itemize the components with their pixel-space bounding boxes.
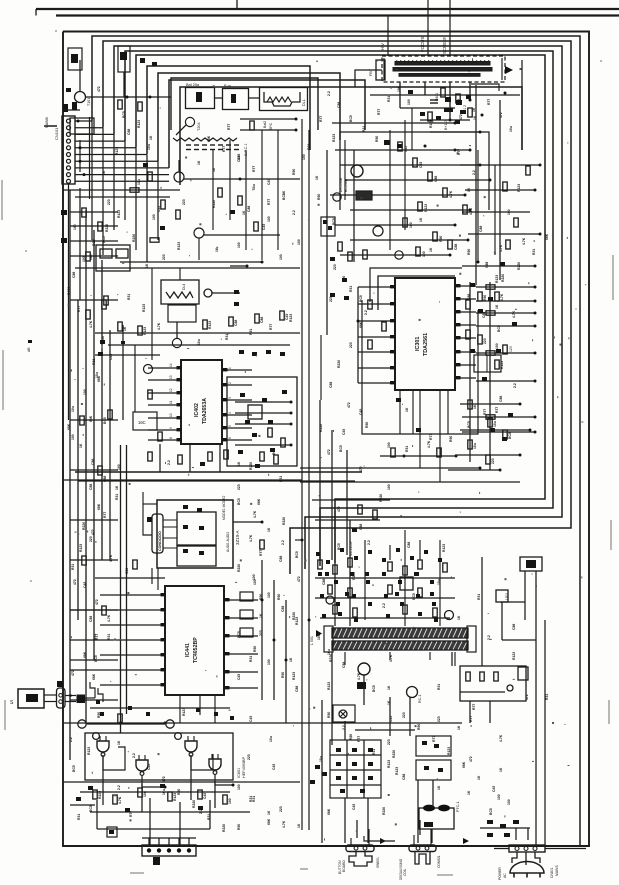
box mid-right region — [370, 268, 462, 302]
resistor Rto — [250, 121, 254, 130]
svg-text:2.2: 2.2 — [69, 737, 73, 742]
svg-text:100: 100 — [495, 343, 499, 349]
resistor RE13 — [403, 605, 407, 614]
svg-text:223: 223 — [107, 199, 111, 205]
blob fb3 — [436, 116, 441, 120]
wire drop 402b — [189, 444, 191, 472]
resistor RA2 — [203, 320, 207, 329]
svg-text:10u: 10u — [269, 736, 273, 742]
svg-text:100: 100 — [302, 154, 306, 160]
blob r301 0 — [500, 262, 505, 266]
svg-text:68K: 68K — [83, 651, 87, 658]
svg-text:BC5: BC5 — [72, 765, 76, 772]
wire cross a — [340, 711, 346, 717]
wire CN601 lead 5 — [188, 838, 190, 845]
svg-text:100: 100 — [73, 224, 77, 230]
wire IC301 left pin 6 — [358, 367, 395, 369]
svg-text:R77: R77 — [483, 409, 487, 415]
svg-text:R31: R31 — [249, 656, 253, 662]
svg-text:C45: C45 — [157, 206, 161, 212]
svg-text:R77: R77 — [472, 704, 476, 710]
svg-text:BC5: BC5 — [272, 448, 276, 455]
blob bm4 — [415, 572, 419, 576]
PTC box — [419, 808, 454, 829]
frame main border — [63, 32, 589, 847]
transistor T503 — [407, 687, 418, 698]
resistor RR3 — [495, 360, 499, 369]
svg-text:1K: 1K — [197, 160, 201, 165]
svg-text:R123: R123 — [289, 314, 293, 322]
svg-text:R220: R220 — [101, 336, 105, 344]
svg-text:BC5: BC5 — [349, 115, 353, 122]
svg-text:R50: R50 — [237, 824, 241, 830]
svg-text:R123: R123 — [67, 287, 71, 295]
svg-text:1K: 1K — [267, 527, 271, 532]
svg-text:2.2: 2.2 — [472, 170, 476, 175]
pin IC441 l2 tick — [161, 608, 166, 611]
wire sw801 up — [356, 820, 358, 838]
resistor RE2 — [348, 558, 352, 567]
box region IC402 — [75, 267, 300, 269]
svg-text:R50: R50 — [375, 136, 379, 142]
svg-text:R123: R123 — [142, 304, 146, 312]
wire LED b — [44, 701, 56, 703]
resistor RT6 — [433, 232, 437, 241]
blob bl — [109, 830, 114, 834]
svg-text:R220: R220 — [501, 274, 505, 282]
wire gates down2 — [141, 782, 143, 812]
svg-text:100: 100 — [237, 242, 241, 248]
node fbt d2 — [479, 131, 482, 134]
wire bm v4b — [417, 780, 419, 843]
svg-text:10u: 10u — [95, 372, 99, 378]
svg-text:16C: 16C — [138, 420, 146, 425]
transistor T431 — [333, 193, 341, 201]
svg-text:R220: R220 — [237, 564, 241, 572]
svg-text:R77: R77 — [469, 716, 473, 722]
wire IC402 right pin 6 — [222, 439, 252, 441]
transistor T501 — [326, 596, 334, 604]
wire gates down4 — [214, 781, 216, 808]
resistor RE6 — [443, 563, 447, 572]
svg-text:TDA2561: TDA2561 — [423, 333, 429, 356]
pin IC441 r1 tick — [225, 598, 230, 601]
CN601 stem — [153, 857, 160, 865]
svg-text:223: 223 — [89, 536, 93, 542]
blob bl3 — [125, 808, 130, 812]
node y482 dot — [479, 467, 482, 470]
svg-text:68K: 68K — [545, 233, 549, 240]
resistor RA0 — [118, 322, 122, 331]
wire left tap 10 — [70, 659, 118, 661]
wire module strip p4 — [163, 547, 177, 549]
svg-text:R31: R31 — [372, 749, 376, 755]
diode D802 — [513, 820, 519, 824]
svg-text:100: 100 — [237, 784, 241, 790]
wire fan ext 5 — [135, 148, 137, 250]
svg-text:R31: R31 — [279, 476, 283, 482]
wire rt row 0 — [335, 149, 470, 151]
flyback FBT dashed box — [382, 56, 505, 82]
blob rb2 — [245, 420, 250, 424]
resistor RC0 — [240, 592, 253, 601]
LED blob — [26, 694, 38, 702]
svg-text:R77: R77 — [357, 736, 361, 742]
blob bm0 — [325, 572, 329, 576]
wire gates out2 — [142, 784, 165, 787]
svg-text:R31: R31 — [71, 564, 75, 570]
connector CN101 pin 1 circle — [67, 119, 71, 123]
wire IC402 left pin 7 — [148, 439, 181, 441]
wire IC402 left pin 3 — [148, 392, 181, 394]
node module dot — [261, 521, 264, 524]
wire IC301 left pin 1 — [358, 286, 395, 288]
wire IC441 left pin 1 — [100, 594, 165, 596]
blob fb1 — [408, 90, 413, 94]
wire IC441 right pin 4 — [224, 653, 258, 655]
wire right col h3 — [455, 454, 520, 456]
pin IC402 r6 tick — [223, 438, 228, 441]
svg-text:R123: R123 — [177, 242, 181, 250]
wire H.V — [387, 16, 389, 56]
node rt dot 1 — [479, 164, 482, 167]
wire y123 — [332, 122, 455, 124]
wire mm h2 — [315, 519, 380, 521]
node rt dot 5 — [454, 224, 457, 227]
svg-text:AB: AB — [27, 347, 31, 352]
wire IC402 left pin 5 — [148, 417, 181, 419]
blob P1b — [434, 744, 439, 748]
capacitor C441 — [118, 714, 122, 723]
blob uf4 — [448, 108, 453, 112]
component box X401 — [321, 217, 335, 236]
resistor RT8 — [448, 240, 452, 249]
svg-text:223: 223 — [387, 739, 391, 745]
svg-text:R31: R31 — [307, 144, 311, 150]
svg-text:3Z19-A: 3Z19-A — [235, 531, 240, 545]
wire IC301 right pin 7 — [455, 364, 476, 366]
svg-text:1K: 1K — [115, 485, 119, 490]
box right low — [496, 590, 508, 602]
connector CN101 pin 10 circle — [67, 179, 71, 183]
wire IC441 right v3 — [285, 600, 287, 723]
wire IC441 right pin 1 — [224, 599, 258, 601]
svg-text:1K: 1K — [405, 407, 409, 412]
blob r301 5 — [470, 349, 475, 353]
wire T202 up — [178, 160, 180, 172]
svg-text:C45: C45 — [359, 409, 363, 415]
node IC301 out dot 8 — [534, 416, 537, 419]
resistor RA1 — [138, 326, 142, 335]
blob band 3 — [354, 556, 358, 560]
blob rb7 — [282, 390, 287, 394]
svg-text:R77: R77 — [267, 199, 271, 205]
wire con801 up2 — [430, 829, 432, 845]
pin IC301 l7 tick — [390, 381, 395, 384]
svg-text:100: 100 — [82, 256, 86, 262]
connector CN101 pin 6 circle — [67, 153, 71, 157]
wire rt v1 — [344, 140, 346, 200]
wire ay v4 — [404, 530, 406, 626]
svg-text:R77: R77 — [269, 324, 273, 330]
diode D801 — [500, 824, 506, 828]
svg-text:100: 100 — [409, 222, 413, 228]
svg-text:C88: C88 — [72, 272, 76, 278]
wire bus loop 6 — [147, 66, 310, 155]
svg-text:1K: 1K — [429, 247, 433, 252]
wire IC441 right pin 3 — [224, 635, 258, 637]
wire CN101 pin 6 lead — [75, 154, 147, 156]
svg-text:R31: R31 — [92, 359, 96, 365]
wire f801 down — [524, 571, 526, 620]
svg-text:R31: R31 — [532, 249, 536, 255]
svg-text:AC: AC — [503, 873, 507, 878]
blob bm2 3 — [336, 762, 341, 766]
node FBT dot2 — [449, 119, 452, 122]
wire spine 2 — [308, 130, 310, 830]
wire q101 row — [86, 96, 171, 98]
svg-text:4.7K: 4.7K — [109, 554, 113, 562]
wire IC301 right pin 1 — [455, 285, 476, 287]
resistor RR2 — [478, 335, 482, 344]
wire uf h — [384, 149, 455, 151]
wire IC402 left pin 6 — [148, 429, 181, 431]
blob P1a — [422, 741, 427, 745]
IC U402 body — [181, 360, 222, 444]
flyback winding bar 2 — [393, 68, 492, 72]
svg-text:R50: R50 — [365, 422, 369, 428]
node IC402 out dot 3 — [290, 423, 293, 426]
flyback dash end R — [501, 58, 503, 80]
gate U601C — [185, 741, 197, 752]
svg-text:R77: R77 — [429, 434, 433, 440]
wire bm v1b — [321, 700, 323, 843]
flyback winding bar 3 — [399, 74, 480, 77]
svg-text:100: 100 — [387, 442, 391, 448]
wire spine h2 — [63, 479, 302, 481]
svg-text:1K: 1K — [437, 785, 441, 790]
svg-text:C88: C88 — [454, 244, 458, 250]
blob r301 10 — [502, 437, 507, 441]
blob bm2 6 — [336, 776, 341, 780]
node IC301 out dot 6 — [534, 352, 537, 355]
component LED series — [77, 695, 86, 704]
wire bus loop 9 — [180, 87, 522, 185]
svg-text:1K: 1K — [457, 615, 461, 620]
gate U601A — [97, 741, 109, 752]
svg-text:R123: R123 — [117, 210, 121, 218]
svg-text:472: 472 — [499, 112, 503, 118]
wire cn101 vert right — [89, 117, 91, 199]
wire ml v1 — [212, 150, 214, 230]
svg-text:472: 472 — [327, 449, 331, 455]
wire bl v1 — [96, 800, 98, 829]
svg-text:1K: 1K — [477, 775, 481, 780]
wire yk t2 — [363, 675, 365, 705]
wire t vertical — [326, 150, 328, 335]
node LED dot — [69, 694, 72, 697]
wire top rail 1 — [36, 8, 619, 10]
svg-text:C88: C88 — [89, 484, 93, 490]
blob band 30 — [418, 612, 422, 616]
resistor RM2 — [373, 510, 377, 519]
svg-text:R77: R77 — [432, 736, 436, 742]
svg-text:R77: R77 — [495, 407, 499, 413]
svg-text:R50: R50 — [349, 734, 353, 740]
wire left bus e — [101, 260, 103, 560]
pin IC441 l5 tick — [161, 653, 166, 656]
component relay K101 — [118, 46, 130, 72]
wire bm v7 — [419, 540, 421, 560]
capacitor C402a — [108, 410, 112, 419]
svg-text:4.7K: 4.7K — [157, 322, 161, 330]
connector CN801 pin 3 — [533, 847, 537, 851]
resistor RL1 — [98, 222, 102, 231]
svg-text:C45: C45 — [457, 99, 461, 105]
wire IC301 out 2 — [476, 286, 535, 288]
wire yk t8 — [451, 652, 453, 666]
node IC301 out dot 2 — [534, 286, 537, 289]
pin IC402 l5 tick — [177, 416, 182, 419]
svg-text:472: 472 — [469, 756, 473, 762]
diode D800 — [487, 820, 493, 824]
svg-text:R50: R50 — [467, 249, 471, 255]
wire left tap 8 — [70, 559, 118, 561]
blob bl6 — [160, 784, 165, 788]
wire stub top — [236, 0, 238, 9]
svg-text:R220: R220 — [282, 517, 286, 525]
svg-text:R220: R220 — [192, 800, 196, 808]
blob band 9 — [438, 558, 442, 562]
svg-text:68K: 68K — [267, 818, 271, 825]
wire bus loop 4 — [125, 51, 553, 566]
wire spine h3 — [295, 539, 302, 541]
resistor RD3 — [168, 792, 172, 801]
wire conn down 2 — [79, 188, 81, 300]
pin IC402 r5 tick — [223, 426, 228, 429]
svg-text:C88: C88 — [485, 262, 489, 268]
pin IC301 l2 tick — [390, 302, 395, 305]
svg-text:1K: 1K — [215, 247, 219, 252]
connector CN101 pin 7 circle — [67, 159, 71, 163]
svg-text:1K: 1K — [472, 107, 476, 112]
svg-text:BC5: BC5 — [122, 111, 126, 118]
blob ag 3 — [196, 708, 200, 712]
svg-text:R77: R77 — [377, 109, 381, 115]
wire IC301 right pin 6 — [455, 351, 476, 353]
wire ml v4 — [261, 130, 263, 260]
svg-text:BC5: BC5 — [359, 295, 363, 302]
svg-text:MODE1 MODE2: MODE1 MODE2 — [222, 495, 226, 520]
wire t vertical2 — [353, 150, 355, 262]
connector CN801 pin 1 — [515, 847, 519, 851]
svg-text:4.7K: 4.7K — [107, 614, 111, 622]
svg-text:C45: C45 — [492, 786, 496, 792]
blob r301 1 — [470, 283, 475, 287]
resistor RB2 — [208, 452, 212, 461]
connector CN601 pin 2 — [157, 848, 161, 852]
wire left tap 7 — [70, 519, 118, 521]
svg-text:R220: R220 — [379, 494, 383, 502]
svg-text:R77: R77 — [227, 124, 231, 130]
resistor RA3 — [229, 317, 233, 326]
wire right low h — [500, 601, 525, 603]
blob rb0 — [240, 393, 245, 397]
wire IC441 left pin 6 — [70, 669, 165, 671]
svg-text:4: 4 — [228, 412, 232, 414]
capacitor CL2 — [86, 310, 90, 319]
svg-text:BC5: BC5 — [237, 498, 241, 505]
blob ml2 — [160, 226, 165, 230]
IC U301 body — [395, 278, 455, 390]
svg-text:C88: C88 — [337, 102, 341, 108]
blob rb1 — [262, 398, 267, 402]
node gates dot4 — [232, 784, 235, 787]
wire FBT pin d — [469, 82, 471, 100]
wire bm v3b — [367, 798, 369, 843]
wire IC441 left pin 7 — [100, 684, 165, 686]
svg-text:3: 3 — [228, 397, 232, 399]
wire bus loop 8 — [169, 80, 365, 168]
module 3Z19-A body — [157, 500, 233, 568]
node IC402 out dot 4 — [290, 444, 293, 447]
resistor RD4 — [198, 790, 202, 799]
svg-text:R31: R31 — [252, 796, 256, 802]
IC U441 body — [165, 586, 224, 695]
wire IC301 left pin 3 — [358, 320, 395, 322]
box small L1 — [100, 249, 112, 258]
svg-text:4.7K: 4.7K — [253, 510, 257, 518]
svg-text:12V: 12V — [509, 345, 513, 352]
wire fan ext 3 — [113, 134, 115, 230]
wire bm h3 — [320, 617, 450, 619]
connector CON801 pin 2 — [425, 846, 429, 850]
resistor RL2 — [86, 252, 90, 261]
wire top rail 2 — [56, 14, 619, 16]
wire IC301 right pin 4 — [455, 324, 476, 326]
shield box tuner — [171, 78, 318, 130]
node rt dot 3 — [464, 194, 467, 197]
svg-text:R31: R31 — [207, 814, 211, 820]
blob r301 8 — [508, 413, 513, 417]
svg-text:100: 100 — [387, 484, 391, 490]
pin IC301 l6 tick — [390, 366, 395, 369]
svg-text:C88: C88 — [89, 616, 93, 622]
svg-text:C88: C88 — [479, 226, 483, 232]
transistor T402 — [172, 338, 181, 347]
pin IC441 l6 tick — [161, 668, 166, 671]
connector CN101 pin 9 circle — [67, 173, 71, 177]
svg-text:IC441: IC441 — [185, 643, 191, 657]
wire left tap 9 — [70, 609, 118, 611]
IF transformer T102 box — [223, 89, 249, 110]
wire mm v2 — [331, 430, 333, 560]
wire ry h — [460, 691, 505, 693]
wire CN101 pin 8 lead — [75, 167, 169, 169]
blob band 11 — [334, 580, 338, 584]
resistor RY2 — [494, 672, 498, 681]
pin IC402 l4 tick — [177, 403, 182, 406]
wire y482 bus — [300, 481, 520, 483]
yoke bar bottom — [332, 641, 468, 650]
wire yoke down4 — [454, 652, 456, 666]
svg-text:Bat 25a: Bat 25a — [186, 83, 200, 87]
blob bus2 — [255, 464, 260, 468]
svg-text:FOCUS: FOCUS — [420, 37, 425, 52]
svg-text:1K: 1K — [149, 135, 153, 140]
svg-text:BC5: BC5 — [332, 218, 336, 225]
wire mm v1 — [319, 400, 321, 560]
